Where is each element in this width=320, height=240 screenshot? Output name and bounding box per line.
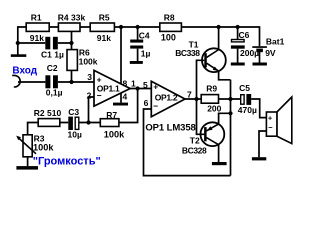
svg-text:R8: R8 [164,12,175,22]
svg-text:0,1µ: 0,1µ [46,87,63,97]
svg-text:3: 3 [87,72,92,82]
svg-text:100k: 100k [79,57,98,67]
svg-text:100k: 100k [33,143,54,153]
svg-text:−: − [268,123,273,132]
svg-text:Bat1: Bat1 [266,36,285,46]
svg-text:R1: R1 [31,12,42,22]
svg-text:C1 1µ: C1 1µ [41,49,64,59]
svg-text:200: 200 [207,103,221,113]
svg-text:9V: 9V [265,48,276,58]
svg-text:BC328: BC328 [182,146,207,156]
svg-text:R5: R5 [99,12,110,22]
svg-text:91k: 91k [30,33,44,43]
svg-text:"Громкость": "Громкость" [33,156,101,168]
svg-text:Вход: Вход [12,66,37,77]
svg-text:R7: R7 [106,110,117,120]
svg-text:BC338: BC338 [175,48,200,58]
svg-text:C2: C2 [47,63,58,73]
svg-text:C5: C5 [239,83,250,93]
svg-text:C6: C6 [239,30,250,40]
svg-text:C4: C4 [139,30,150,40]
svg-text:100k: 100k [104,129,125,139]
svg-text:6: 6 [144,98,149,108]
svg-text:100: 100 [161,33,176,43]
svg-text:470µ: 470µ [238,105,257,115]
svg-text:1µ: 1µ [141,48,151,58]
svg-text:OP1 LM358: OP1 LM358 [145,122,195,133]
svg-text:7: 7 [187,90,192,100]
svg-text:8: 8 [123,78,128,88]
svg-text:−: − [153,101,158,111]
svg-text:R2 510: R2 510 [34,108,62,118]
svg-text:−: − [97,90,102,100]
svg-text:T2: T2 [190,135,200,145]
svg-text:10µ: 10µ [68,130,82,140]
svg-text:C3: C3 [68,107,79,117]
svg-text:+: + [97,74,102,84]
svg-text:4: 4 [123,92,128,102]
svg-text:OP1.2: OP1.2 [155,93,178,103]
svg-text:200µ: 200µ [240,48,259,58]
svg-text:R4 33k: R4 33k [58,13,86,23]
svg-text:5: 5 [143,80,148,90]
svg-text:R9: R9 [206,84,217,94]
svg-text:2: 2 [87,90,92,100]
svg-text:1: 1 [131,79,136,89]
svg-text:+: + [268,113,273,122]
svg-text:91k: 91k [97,33,111,43]
svg-text:+: + [153,82,158,92]
